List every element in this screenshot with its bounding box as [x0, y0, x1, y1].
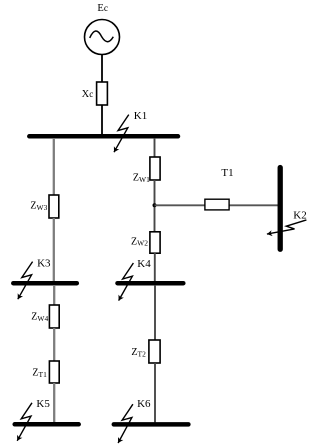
- svg-text:K5: K5: [36, 398, 50, 410]
- svg-text:K6: K6: [137, 398, 151, 410]
- svg-text:Xc: Xc: [82, 89, 94, 100]
- svg-text:T1: T1: [221, 167, 233, 179]
- svg-text:ZW3: ZW3: [30, 201, 47, 212]
- svg-text:K3: K3: [37, 257, 51, 269]
- svg-text:ZT1: ZT1: [32, 368, 47, 379]
- svg-text:K2: K2: [293, 210, 306, 222]
- svg-text:K1: K1: [134, 110, 147, 122]
- svg-text:K4: K4: [137, 258, 151, 270]
- svg-text:ZW4: ZW4: [31, 312, 48, 323]
- svg-text:ZW2: ZW2: [131, 236, 148, 247]
- svg-text:ZW1: ZW1: [133, 173, 150, 184]
- svg-text:ZT2: ZT2: [131, 347, 146, 358]
- svg-text:Ec: Ec: [97, 3, 108, 14]
